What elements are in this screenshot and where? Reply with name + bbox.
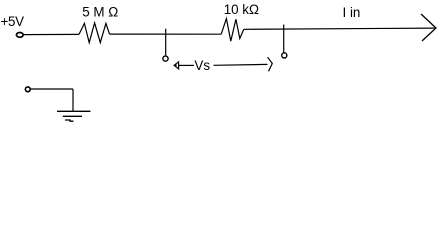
junction stub at node Vs+ [165,29,167,56]
arrowhead of I in output [421,14,436,41]
wire from ground terminal [31,88,73,90]
ground bar 1 [57,110,91,112]
ground bar 3 [65,120,74,121]
Vs measurement left arrowhead [174,62,179,69]
wire from +5V terminal to R1 [24,33,79,35]
Vs measurement left line [179,64,194,66]
wire from R2 to output arrow [244,28,435,29]
junction stub at node Vs- [283,25,285,53]
Vs measurement right arrowhead [268,57,273,71]
resistor R1 zigzag [79,23,110,43]
wire down to ground symbol [72,89,74,111]
terminal circle node Vs+ [163,56,168,61]
svg-text:+5V: +5V [1,14,25,29]
terminal circle node Vs- [282,53,287,58]
terminal circle +5V [16,33,23,38]
wire from R1 to R2 [110,33,222,35]
svg-text:5 M Ω: 5 M Ω [82,5,118,20]
svg-text:Vs: Vs [194,58,210,73]
terminal circle ground [25,87,30,92]
ground bar 2 [63,115,82,117]
svg-text:I in: I in [343,5,361,20]
Vs measurement right line [214,63,268,66]
svg-text:10 kΩ: 10 kΩ [224,2,259,17]
resistor R2 zigzag [221,19,244,41]
